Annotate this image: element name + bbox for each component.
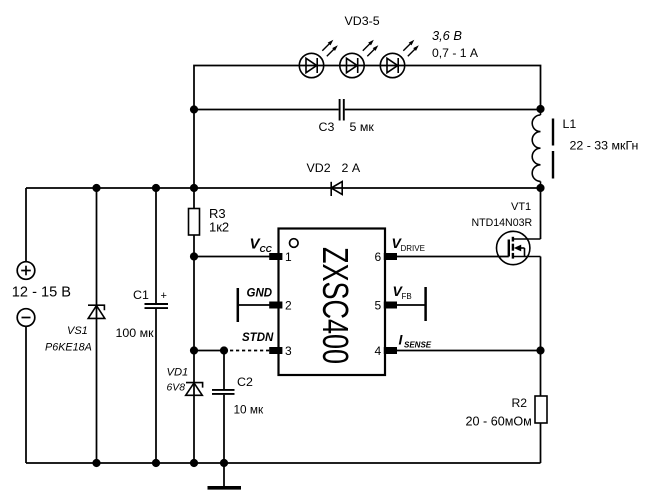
ground	[208, 486, 242, 490]
svg-text:VS1: VS1	[67, 325, 88, 337]
svg-text:22 - 33 мкГн: 22 - 33 мкГн	[570, 139, 639, 153]
junction L1 top	[536, 105, 544, 113]
wire C2 branch bottom	[223, 395, 225, 463]
GND bar symbol	[237, 288, 240, 322]
svg-text:12 - 15 В: 12 - 15 В	[12, 285, 71, 301]
svg-text:STDN: STDN	[242, 332, 274, 344]
wire VCC row	[194, 256, 270, 258]
LED VD4 arrows	[363, 40, 379, 57]
wire GND pin lead	[238, 304, 270, 306]
junction C1 bottom	[152, 459, 160, 467]
svg-text:ZXSC400: ZXSC400	[315, 247, 356, 364]
diode VD1 zener	[186, 383, 203, 396]
diode VS1 TVS	[88, 305, 105, 318]
wire C2 branch top	[223, 351, 225, 390]
svg-text:20 - 60мОм: 20 - 60мОм	[466, 415, 532, 429]
junction C1 top	[152, 184, 160, 192]
terminal minus	[17, 309, 35, 327]
svg-text:5: 5	[375, 299, 382, 313]
svg-text:VD2: VD2	[307, 161, 331, 175]
LED VD3 arrows	[322, 40, 338, 57]
svg-text:L1: L1	[563, 117, 577, 131]
wire C1 branch bottom	[155, 309, 157, 463]
junction VCC	[190, 252, 198, 260]
wire C1 branch top	[155, 188, 157, 303]
wire right vertical L1 to drain	[540, 188, 542, 239]
IC pin 5 pad	[384, 302, 397, 309]
junction VD1 bottom	[190, 459, 198, 467]
svg-text:C3: C3	[319, 120, 335, 134]
VFB bar symbol	[424, 287, 427, 321]
wire left input plus	[25, 188, 27, 262]
svg-text:6: 6	[375, 250, 382, 264]
svg-text:2 А: 2 А	[342, 161, 361, 175]
LED VD4	[340, 53, 364, 77]
svg-text:VD1: VD1	[167, 367, 189, 379]
wire C3 row right	[345, 109, 541, 111]
junction C3 left	[190, 105, 198, 113]
IC pin 3 pad	[269, 347, 282, 354]
svg-text:4: 4	[375, 344, 382, 358]
svg-text:1к2: 1к2	[209, 220, 229, 235]
svg-text:SENSE: SENSE	[404, 341, 432, 350]
wire ground stub	[223, 463, 225, 487]
svg-text:5 мк: 5 мк	[350, 120, 375, 134]
junction VS1 top	[92, 184, 100, 192]
wire ISENSE row	[397, 350, 541, 352]
resistor R2	[535, 396, 547, 423]
svg-text:100 мк: 100 мк	[116, 326, 155, 340]
inductor L1	[532, 109, 553, 188]
svg-text:C1: C1	[133, 288, 149, 302]
wire top LED rail	[194, 66, 541, 189]
svg-text:P6KE18A: P6KE18A	[45, 342, 92, 354]
IC pin 2 pad	[269, 302, 282, 309]
wire left input minus	[25, 326, 27, 463]
capacitor C1	[145, 304, 169, 308]
IC pin 4 pad	[384, 347, 397, 354]
svg-text:3: 3	[285, 344, 292, 358]
svg-text:10 мк: 10 мк	[234, 403, 265, 417]
svg-text:FB: FB	[402, 292, 412, 301]
wire VS1 branch	[96, 188, 98, 463]
wire STDN solid part	[194, 350, 224, 352]
wire R2 to bottom rail	[540, 423, 542, 463]
junction L1 bottom	[536, 184, 544, 192]
wire STDN dashed part	[224, 350, 270, 352]
wire left vertical x194 top	[193, 188, 195, 209]
terminal plus	[17, 262, 35, 280]
svg-text:1: 1	[285, 250, 292, 264]
junction ground	[220, 459, 228, 467]
wire VD2 row	[26, 187, 541, 189]
svg-text:NTD14N03R: NTD14N03R	[472, 217, 533, 229]
IC pin 6 pad	[384, 253, 397, 260]
svg-text:+: +	[161, 290, 167, 302]
junction STDN left	[190, 346, 198, 354]
svg-text:2: 2	[285, 299, 292, 313]
transistor VT1 MOSFET	[497, 231, 541, 264]
LED VD5	[380, 53, 404, 77]
IC pin1 indicator	[290, 239, 299, 248]
transistor VT1 arrow	[514, 245, 521, 252]
LED VD3	[299, 53, 323, 77]
wire C3 row	[194, 109, 339, 111]
svg-text:C2: C2	[237, 375, 253, 389]
svg-text:R2: R2	[512, 396, 528, 410]
op-amp U1 IC ZXSC400 body	[279, 229, 386, 376]
svg-text:3,6 В: 3,6 В	[432, 28, 462, 43]
diode VD2	[331, 182, 342, 197]
IC pin 1 pad	[269, 253, 282, 260]
resistor R3	[189, 209, 200, 236]
svg-text:VD3-5: VD3-5	[345, 14, 380, 28]
svg-text:VT1: VT1	[511, 201, 531, 213]
wire ISENSE junction to R2	[540, 351, 542, 397]
wire left vertical x194 mid	[193, 235, 195, 463]
wire VFB lead	[397, 304, 426, 306]
junction VS1 bottom	[92, 459, 100, 467]
junction VD2 left vertical	[190, 184, 198, 192]
junction STDN C2	[220, 346, 228, 354]
wire VDRIVE to gate	[397, 256, 509, 258]
capacitor C2	[212, 390, 235, 394]
LED VD5 arrows	[403, 40, 419, 57]
svg-text:GND: GND	[247, 288, 273, 300]
junction ISENSE right	[536, 346, 544, 354]
wire bottom rail	[26, 462, 541, 464]
capacitor C3	[340, 99, 344, 121]
svg-text:0,7 - 1 А: 0,7 - 1 А	[432, 46, 479, 60]
svg-text:DRIVE: DRIVE	[401, 244, 425, 253]
svg-text:6V8: 6V8	[167, 383, 186, 394]
wire source to ISENSE junction	[540, 257, 542, 351]
